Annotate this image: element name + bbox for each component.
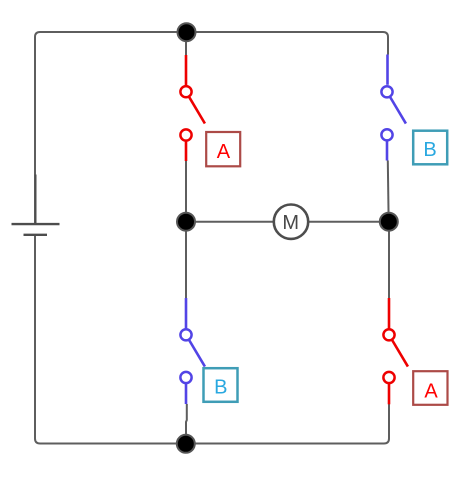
wire: bottom node to bottom-right corner up to switch A2 bottom [186, 404, 389, 444]
switch B2 (bottom-left, blue) lead upper [185, 298, 188, 329]
switch B1 upper terminal circle [381, 86, 392, 97]
label box A (switch A1) [206, 132, 240, 166]
wire left rail: top corner down to battery positive plate [34, 37, 36, 223]
switch B2 lower terminal circle [180, 372, 191, 383]
junction node: left middle [177, 213, 195, 231]
switch B2 blade (open, angled) [189, 340, 205, 367]
switch A1 lower terminal circle [180, 129, 191, 140]
switch A2 lead lower [388, 384, 391, 405]
label box B (switch B1) [413, 131, 447, 165]
label box B (switch B2) [204, 368, 238, 402]
wire: switch A1 bottom to left mid node [185, 161, 187, 218]
switch B2 upper terminal circle [180, 329, 191, 340]
switch B1 (top-right, blue) lead upper [386, 55, 389, 85]
switch B1 lower terminal circle [381, 129, 392, 140]
wire stub: top node to switch A1 top [185, 36, 187, 56]
svg-text:B: B [214, 377, 227, 399]
switch A1 blade (open, angled) [189, 97, 205, 124]
svg-text:B: B [423, 139, 436, 161]
wire: switch B2 bottom to bottom node (small jog) [185, 404, 188, 440]
wire top rail: top-left corner to top node [35, 32, 186, 42]
wire: switch B1 bottom to right mid node [387, 161, 390, 219]
switch B1 lead lower [386, 141, 389, 161]
switch A1 lead lower [185, 141, 188, 161]
junction node: top [178, 23, 196, 41]
switch A2 blade (open, angled) [392, 340, 408, 367]
switch B2 lead lower [185, 384, 188, 405]
wire: left mid node to motor left terminal [186, 221, 274, 223]
junction node: bottom [177, 435, 195, 453]
switch B1 blade (open, angled) [390, 97, 406, 124]
wire: left mid node down to switch B2 top [185, 226, 187, 299]
junction node: right middle [380, 213, 398, 231]
battery negative plate [24, 234, 48, 236]
switch A1 (top-left, red) lead upper [185, 55, 188, 85]
switch A2 upper terminal circle [383, 329, 394, 340]
svg-text:M: M [282, 212, 299, 234]
battery positive plate [12, 223, 60, 225]
switch A2 (bottom-right, red) lead upper [388, 298, 391, 329]
wire left rail: battery negative down to bottom-left corner and bottom node [35, 236, 186, 444]
switch A2 lower terminal circle [383, 372, 394, 383]
motor M body circle [274, 205, 308, 239]
svg-text:A: A [217, 141, 231, 163]
svg-text:A: A [424, 380, 438, 402]
wire top rail: top node to top-right corner down to switch B top [186, 32, 388, 55]
wire: right mid node down to switch A2 top [388, 226, 390, 299]
battery top lead (overlaps left rail) [35, 175, 37, 224]
label box A (switch A2) [413, 371, 447, 405]
wire: motor right terminal to right mid node [309, 221, 390, 223]
switch A1 upper terminal circle [180, 86, 191, 97]
